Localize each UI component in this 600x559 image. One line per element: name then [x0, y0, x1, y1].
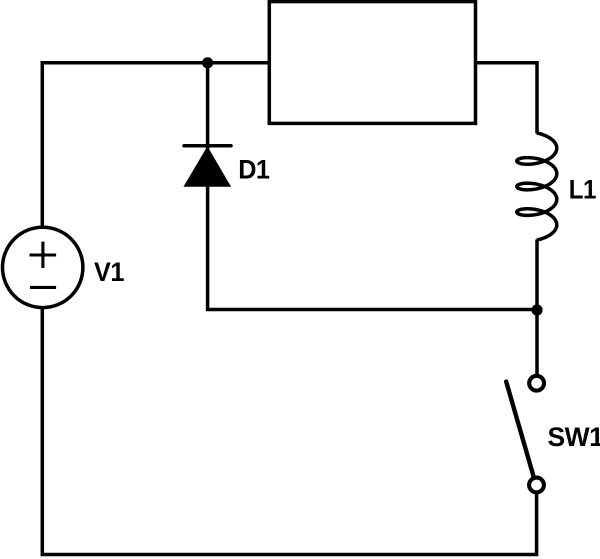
wire: D1 branch from top node down and middle rail to L1 node	[208, 63, 537, 310]
wire: from box right pin right and down to L1 top	[476, 63, 538, 134]
wire: right column from L1 bottom through middle node to SW1 top terminal	[535, 240, 539, 376]
switch SW1 bottom terminal circle	[529, 478, 544, 493]
svg-text:V1: V1	[94, 257, 124, 287]
node: junction dot at middle rail / L1 column	[531, 304, 542, 315]
switch SW1 lever	[506, 382, 534, 478]
voltage source V1 minus sign	[30, 286, 56, 289]
diode D1 cathode bar	[184, 144, 231, 148]
svg-text:D1: D1	[238, 155, 270, 185]
svg-text:L1: L1	[569, 175, 597, 205]
node: junction dot at top rail / D1 branch	[202, 57, 213, 68]
voltage source V1 circle	[3, 227, 83, 307]
component box (unlabeled block)	[269, 2, 475, 124]
wire: outer loop from box left pin, left rail through V1, bottom rail, up to SW1 bottom terminal	[42, 63, 536, 555]
voltage source V1 plus sign	[30, 242, 57, 268]
diode D1 triangle	[184, 147, 230, 186]
switch SW1 top terminal circle	[529, 376, 544, 391]
svg-text:SW1: SW1	[548, 422, 600, 452]
inductor L1 coil	[517, 133, 557, 240]
